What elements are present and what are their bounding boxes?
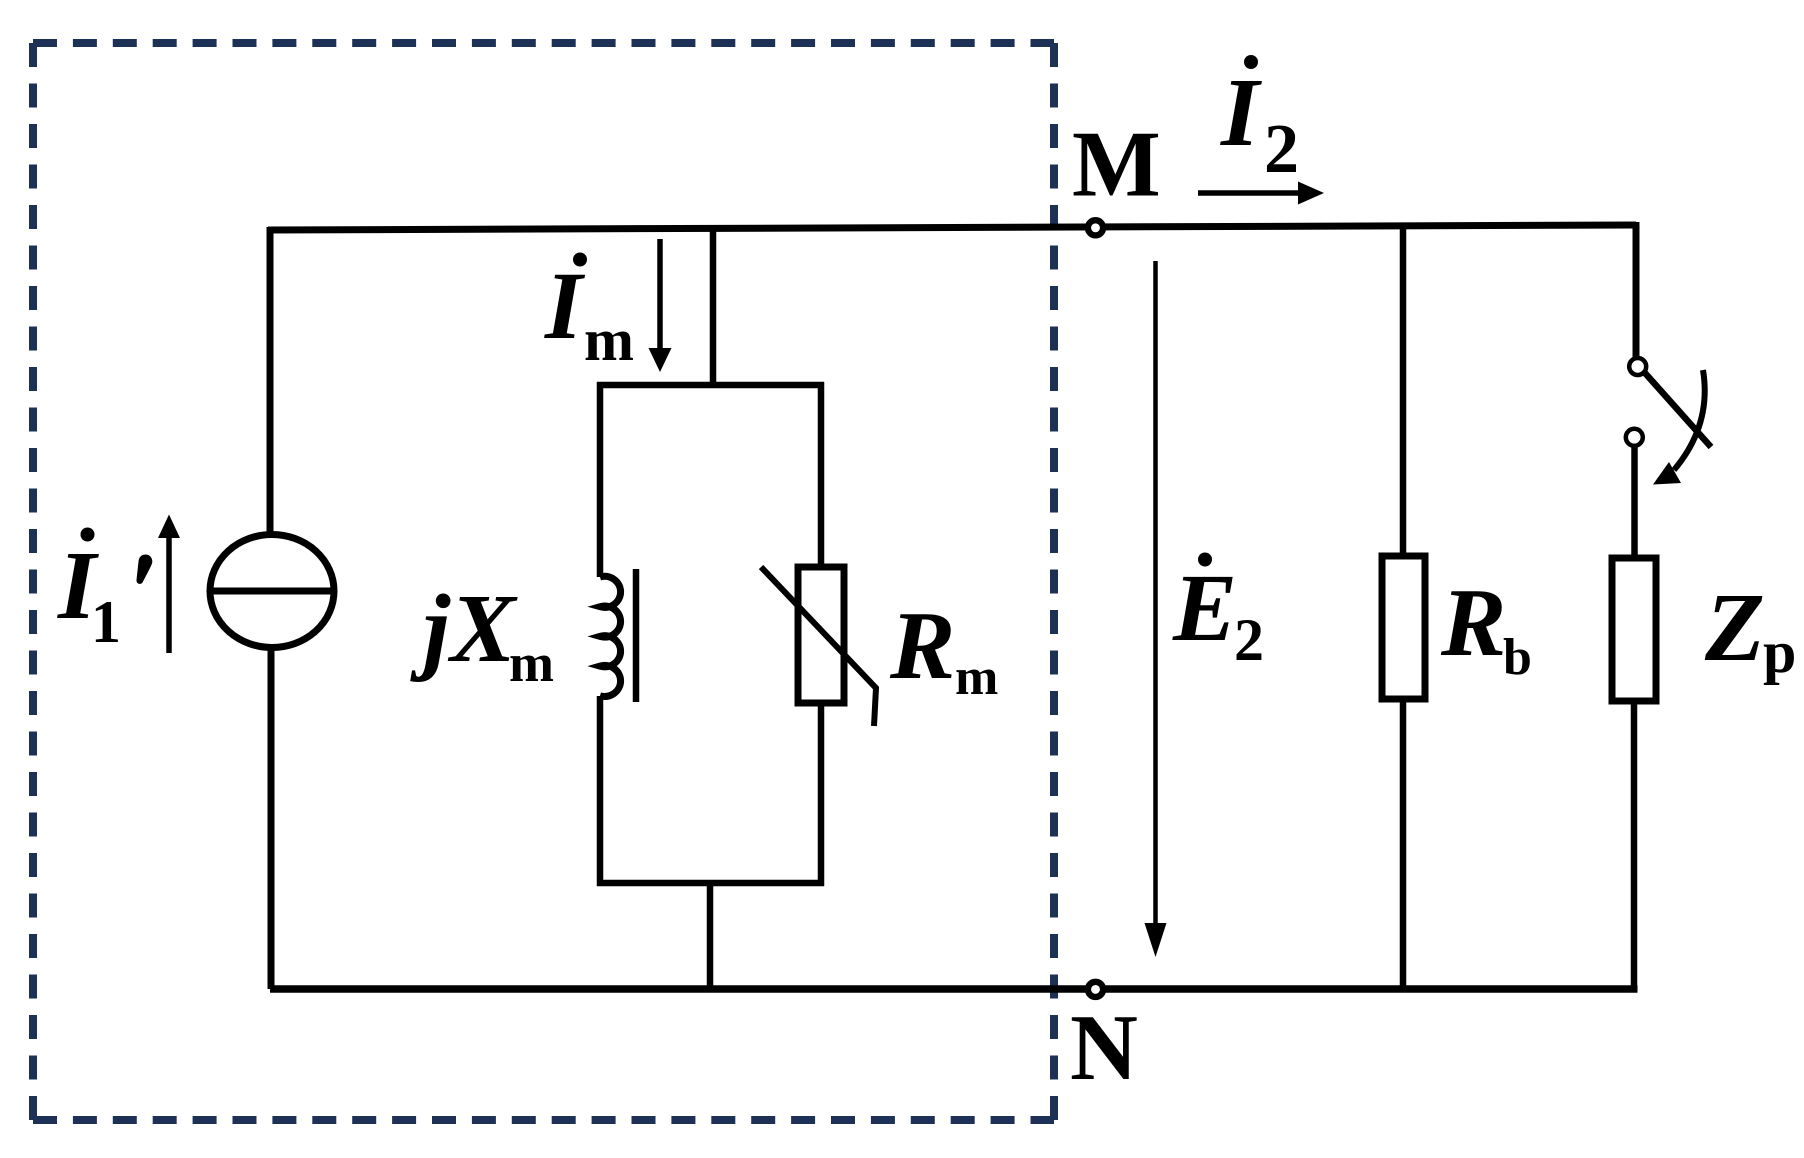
inner box bottom edge (597, 880, 824, 887)
switch motion arc (1674, 370, 1705, 470)
dashed boundary left edge (29, 43, 37, 1120)
svg-text:M: M (1072, 113, 1161, 217)
label I1' prime (136, 555, 152, 584)
svg-text:2: 2 (1234, 607, 1264, 673)
wire: bottom bus (270, 985, 1638, 993)
dashed boundary right edge (1050, 43, 1058, 1120)
wire: Im stub from top bus (710, 228, 717, 388)
inner box left lower wire (597, 696, 604, 886)
wire: Rb branch lower (1400, 699, 1407, 989)
inductor core bar (633, 569, 640, 702)
svg-text:m: m (955, 649, 998, 706)
wire: left branch lower (source to bottom bus) (268, 646, 275, 989)
arrow E2 (down) (1153, 261, 1158, 928)
wire: switch to Zp (1631, 446, 1638, 558)
dashed boundary top edge (33, 39, 1054, 47)
inner box right upper wire (818, 382, 825, 567)
inner box right lower wire (818, 703, 825, 886)
inductor jXm coil (600, 576, 621, 696)
inner box top edge (597, 382, 824, 389)
impedance Zp body (1612, 558, 1656, 701)
wire: Rb branch upper (1400, 226, 1407, 556)
svg-text:N: N (1070, 996, 1138, 1100)
varistor Rm body (798, 567, 844, 703)
arrow I2 (right) (1198, 190, 1302, 196)
svg-text:I: I (544, 252, 586, 359)
svg-text:R: R (889, 592, 955, 700)
label Im dot (573, 253, 587, 267)
resistor Rb body (1382, 556, 1425, 699)
node M ring (1088, 220, 1103, 235)
wire: top bus from left corner to switch corner (268, 225, 1636, 230)
svg-text:Z: Z (1704, 574, 1765, 682)
label I2 dot (1244, 55, 1258, 69)
wire: Zp branch lower (1631, 701, 1638, 992)
dashed boundary bottom edge (33, 1116, 1054, 1124)
current source chord (209, 588, 335, 595)
wire: switch branch from top bus (1633, 222, 1640, 357)
svg-text:2: 2 (1264, 111, 1299, 188)
wire: left branch upper (top bus down to source) (267, 227, 274, 534)
current source I1' circle (210, 535, 334, 648)
arrow Im (down) (657, 239, 663, 350)
svg-text:m: m (509, 633, 554, 693)
label I1' dot (81, 528, 95, 542)
svg-text:jX: jX (410, 575, 518, 683)
switch blade (1645, 373, 1711, 447)
inner box left upper wire (597, 382, 604, 577)
svg-text:R: R (1440, 569, 1506, 677)
svg-text:I: I (1220, 59, 1262, 167)
label E2 dot (1198, 553, 1212, 567)
switch lower contact (1626, 429, 1643, 446)
svg-text:E: E (1172, 554, 1237, 661)
svg-text:1: 1 (91, 589, 121, 655)
arrow I1' (up) (166, 535, 172, 653)
svg-text:p: p (1763, 619, 1796, 685)
svg-text:b: b (1503, 629, 1532, 686)
svg-text:m: m (584, 307, 634, 373)
varistor Rm diagonal (761, 567, 876, 726)
wire: stub inner box bottom to bottom bus (707, 883, 714, 989)
switch upper contact (1629, 358, 1646, 375)
node N ring (1088, 982, 1103, 997)
